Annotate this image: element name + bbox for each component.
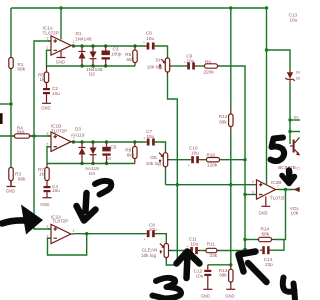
resistor R7 bbox=[38, 164, 49, 181]
junction V+ rail at IC1A bbox=[59, 6, 62, 9]
svg-text:CLEAN: CLEAN bbox=[142, 247, 158, 252]
svg-text:GND: GND bbox=[40, 202, 49, 207]
svg-text:10u: 10u bbox=[52, 188, 60, 193]
annotation digit 5 bbox=[271, 138, 285, 162]
svg-text:68k: 68k bbox=[219, 120, 227, 125]
capacitor C9 bbox=[184, 53, 197, 69]
svg-text:2: 2 bbox=[47, 46, 49, 50]
junction C5 bottom bbox=[105, 162, 108, 165]
junction zener line y120 bbox=[288, 118, 291, 121]
svg-text:3: 3 bbox=[47, 37, 49, 41]
resistor R4 bbox=[12, 126, 33, 139]
svg-text:2: 2 bbox=[47, 235, 49, 239]
resistor R12 bbox=[219, 110, 233, 131]
annotation arrow 1 (left) bbox=[2, 205, 43, 235]
annotation hook arrow near BC547B bbox=[282, 171, 295, 184]
svg-text:68k: 68k bbox=[18, 176, 26, 181]
svg-text:68k: 68k bbox=[18, 67, 26, 72]
junction summing node at R11/C14 bbox=[243, 248, 248, 253]
wire stub right at y131 bbox=[290, 131, 300, 133]
svg-text:GND: GND bbox=[259, 211, 268, 216]
svg-text:+: + bbox=[143, 137, 145, 141]
svg-text:1N: 1N bbox=[296, 71, 301, 75]
junction D3 bottom bbox=[80, 162, 83, 165]
capacitor C4 bbox=[44, 181, 61, 198]
transistor Q1 BC547B bbox=[278, 138, 301, 171]
svg-text:6k8: 6k8 bbox=[17, 129, 25, 134]
wire R4 input row bbox=[0, 135, 50, 137]
wire IC2B V+ vertical bbox=[266, 8, 268, 184]
diode D2 bbox=[86, 46, 103, 77]
svg-text:+: + bbox=[188, 164, 190, 168]
svg-text:BS: BS bbox=[294, 116, 299, 120]
op-amp IC2B bbox=[252, 180, 286, 201]
annotation up-arrow bottom middle bbox=[177, 252, 200, 279]
svg-text:TL072P: TL072P bbox=[270, 195, 286, 200]
wire IC1A V+ power bbox=[60, 8, 62, 40]
wire channel2 output top rail bbox=[74, 141, 146, 143]
svg-text:10k log: 10k log bbox=[141, 253, 157, 258]
svg-text:10u: 10u bbox=[196, 273, 204, 278]
ground below C2 bbox=[41, 103, 51, 110]
capacitor C11 bbox=[187, 237, 200, 254]
capacitor C8 bbox=[144, 222, 158, 242]
wire R10 to summing vertical bbox=[221, 159, 245, 161]
wire IC1A feedback loop and channel1 bottom rail bbox=[47, 50, 136, 66]
wire R14 feedback row bbox=[245, 239, 257, 241]
svg-text:68k: 68k bbox=[127, 57, 135, 62]
svg-text:5: 5 bbox=[252, 180, 254, 184]
svg-text:7: 7 bbox=[277, 184, 279, 188]
wire top supply rail bbox=[11, 7, 267, 9]
junction summing at R14 bbox=[243, 238, 246, 241]
capacitor C2 bbox=[43, 83, 60, 104]
svg-text:6k8: 6k8 bbox=[127, 152, 135, 157]
diode D3 bbox=[71, 126, 86, 163]
capacitor C12 bbox=[194, 265, 212, 290]
svg-text:GND: GND bbox=[201, 294, 210, 299]
annotation digit 4 bbox=[283, 278, 295, 300]
ground IC2B V- pin bbox=[259, 197, 271, 216]
svg-text:1N4148: 1N4148 bbox=[75, 36, 92, 41]
wire C6 to pot SI top bbox=[156, 46, 168, 59]
wire GE pot bottom down bbox=[165, 168, 167, 184]
junction C3 top bbox=[104, 44, 107, 47]
resistor R14 bbox=[257, 227, 275, 242]
ground below C12 bbox=[201, 289, 213, 298]
wire tee to zener branch bbox=[267, 50, 291, 70]
junction C5 top bbox=[105, 140, 108, 143]
wire bias divider vertical upper (R12 top) bbox=[230, 8, 232, 110]
junction D1 bottom bbox=[80, 64, 83, 67]
svg-text:10u: 10u bbox=[146, 36, 154, 41]
junction D4 bottom bbox=[91, 162, 94, 165]
ground below R3 bbox=[6, 181, 16, 194]
svg-text:C5: C5 bbox=[110, 144, 116, 149]
resistor R5 bbox=[38, 66, 49, 83]
svg-text:D4: D4 bbox=[89, 171, 95, 176]
junction C3 bottom bbox=[104, 64, 107, 67]
wire IC2B output to right edge bbox=[278, 189, 300, 191]
capacitor C13 label (body off-screen) bbox=[289, 12, 298, 22]
capacitor C14 bbox=[260, 246, 273, 267]
resistor R6 bbox=[125, 46, 137, 66]
svg-text:C6: C6 bbox=[146, 31, 152, 36]
wire summing to IC2B inverting input bbox=[245, 194, 257, 196]
svg-text:10u: 10u bbox=[187, 58, 195, 63]
diode D4 bbox=[85, 142, 99, 176]
svg-text:68k: 68k bbox=[262, 231, 270, 236]
ground below R13 bbox=[225, 289, 235, 298]
svg-text:D6: D6 bbox=[296, 77, 300, 81]
junction V+ tee at IC2B column bbox=[265, 48, 268, 51]
wire SI wiper row to C9 bbox=[171, 65, 186, 67]
wire bias divider vertical lower bbox=[230, 131, 232, 265]
wire R9 to summing vertical down to C14 row bbox=[220, 66, 246, 250]
ground IC1A V- pin bbox=[56, 51, 66, 65]
annotation digit 3 bbox=[153, 278, 182, 299]
svg-text:10u: 10u bbox=[191, 150, 199, 155]
svg-text:10k log: 10k log bbox=[146, 161, 162, 166]
svg-text:10u: 10u bbox=[190, 242, 198, 247]
potentiometer CLEAN bbox=[141, 242, 171, 260]
resistor R3 bbox=[9, 168, 26, 182]
junction bias C12 tap bbox=[229, 263, 232, 266]
svg-text:GND: GND bbox=[56, 59, 65, 64]
wire IC2A output row to C8 bbox=[74, 233, 146, 235]
junction IC2A output feedback tap bbox=[85, 232, 88, 235]
wire channel1 output top rail bbox=[74, 45, 146, 47]
svg-text:6: 6 bbox=[47, 142, 49, 146]
annotation down-arrow near IC2A bbox=[77, 193, 96, 221]
potentiometer SI bbox=[147, 57, 172, 75]
zener diode D right column bbox=[285, 70, 300, 84]
resistor R13 bbox=[219, 265, 233, 289]
svg-text:GND: GND bbox=[41, 106, 50, 111]
svg-text:+: + bbox=[187, 245, 189, 249]
diode D1 bbox=[75, 31, 92, 66]
junction V+ rail at IC2B branch bbox=[265, 6, 268, 9]
volume pot wiper arrow at edge bbox=[290, 187, 300, 216]
wire stub right at y120 bbox=[290, 119, 300, 121]
svg-text:1k: 1k bbox=[39, 171, 45, 176]
op-amp IC2A bbox=[47, 214, 75, 243]
svg-text:+: + bbox=[143, 41, 145, 45]
svg-text:220k: 220k bbox=[204, 70, 215, 75]
svg-text:68k: 68k bbox=[219, 272, 227, 277]
op-amp IC1A bbox=[43, 25, 75, 55]
capacitor C3 bbox=[102, 46, 122, 66]
wire zener to transistor base column bbox=[289, 84, 291, 144]
capacitor C6 bbox=[143, 31, 156, 50]
wire C11 to R11 bbox=[199, 250, 205, 252]
svg-text:SI: SI bbox=[156, 57, 160, 62]
resistor R10 bbox=[205, 153, 222, 168]
svg-text:10u: 10u bbox=[290, 17, 298, 22]
wire IC1B feedback loop and channel2 bottom rail bbox=[47, 147, 135, 164]
svg-text:GE: GE bbox=[150, 155, 157, 160]
resistor R1 bbox=[9, 58, 26, 72]
junction input bias node bbox=[9, 102, 12, 105]
junction node A at R4 output bbox=[32, 134, 35, 137]
junction D1 top bbox=[80, 44, 83, 47]
junction bias rail at divider bbox=[229, 183, 232, 186]
svg-text:10u: 10u bbox=[146, 134, 154, 139]
wire input bus to noninverting inputs (node A) bbox=[34, 41, 50, 229]
svg-text:D1: D1 bbox=[76, 31, 82, 36]
potentiometer GE bbox=[146, 151, 170, 169]
capacitor C10 bbox=[188, 146, 201, 168]
input pad fragment at left edge bbox=[0, 113, 3, 124]
wire R14 to output vertical bbox=[275, 190, 286, 240]
svg-text:+: + bbox=[184, 61, 186, 65]
svg-text:C1: C1 bbox=[297, 167, 301, 171]
junction IC1B output bbox=[72, 140, 75, 143]
junction summing at inverting input bbox=[243, 193, 246, 196]
wire C9 to R9 bbox=[196, 65, 203, 67]
svg-text:R12: R12 bbox=[219, 114, 228, 119]
ground below C4 bbox=[40, 198, 51, 207]
junction bias rail at SI/CLEAN vertical bbox=[176, 183, 179, 186]
svg-text:GND: GND bbox=[6, 189, 15, 194]
svg-text:6: 6 bbox=[252, 190, 254, 194]
svg-text:TL072P: TL072P bbox=[51, 128, 67, 133]
wire C12 tap bbox=[208, 264, 231, 266]
wire C10 to R10 bbox=[201, 159, 206, 161]
svg-text:5: 5 bbox=[47, 132, 49, 136]
svg-text:1k: 1k bbox=[40, 77, 46, 82]
wire pot SI bottom to bias rail and CLEAN pot bottom bbox=[166, 75, 177, 266]
resistor R11 bbox=[204, 242, 219, 259]
capacitor C5 bbox=[102, 142, 116, 164]
wire GE wiper row to C10 bbox=[170, 159, 190, 161]
svg-text:R9: R9 bbox=[205, 59, 211, 64]
resistor R9 bbox=[203, 59, 220, 74]
svg-text:10u: 10u bbox=[52, 91, 60, 96]
junction D2 top bbox=[91, 44, 94, 47]
svg-text:R10: R10 bbox=[207, 153, 216, 158]
junction D4 top bbox=[91, 140, 94, 143]
wire CLEAN wiper row to C11 bbox=[170, 250, 188, 252]
junction summing at R10 bbox=[243, 158, 246, 161]
svg-text:TL072P: TL072P bbox=[52, 218, 68, 223]
svg-text:TL072P: TL072P bbox=[43, 31, 59, 36]
resistor R8 bbox=[125, 142, 137, 164]
junction D2 bottom bbox=[91, 64, 94, 67]
annotation arrow 4 (pointing up-left) bbox=[239, 252, 267, 283]
svg-text:100p: 100p bbox=[111, 52, 122, 57]
svg-text:22p: 22p bbox=[265, 262, 273, 267]
annotation hook stroke near IC2A bbox=[95, 181, 111, 195]
junction D3 top bbox=[80, 140, 83, 143]
svg-text:D2: D2 bbox=[89, 72, 95, 77]
wire left input stub at node bias bbox=[0, 103, 11, 105]
svg-text:10u: 10u bbox=[149, 227, 157, 232]
wire bias rail to IC2B noninverting input bbox=[166, 184, 257, 186]
svg-text:GND: GND bbox=[225, 294, 234, 299]
junction R6 top bbox=[133, 44, 136, 47]
svg-text:5n: 5n bbox=[106, 156, 112, 161]
capacitor C7 bbox=[143, 129, 156, 146]
svg-text:3: 3 bbox=[47, 224, 49, 228]
op-amp IC1B bbox=[47, 124, 75, 152]
wire C7 to pot GE top bbox=[156, 142, 166, 151]
svg-text:AA119: AA119 bbox=[71, 132, 85, 137]
svg-text:+: + bbox=[144, 238, 146, 242]
wire C8 to pot CLEAN top bbox=[156, 234, 166, 242]
svg-text:10k: 10k bbox=[291, 210, 299, 215]
svg-text:10k log: 10k log bbox=[147, 65, 163, 70]
junction IC2B output feedback bbox=[284, 188, 287, 191]
junction R8 top bbox=[133, 140, 136, 143]
svg-text:33k: 33k bbox=[210, 253, 218, 258]
wire left vertical R1/R3 column bbox=[10, 8, 12, 186]
svg-text:120k: 120k bbox=[207, 163, 218, 168]
junction IC1A output bbox=[72, 44, 75, 47]
svg-text:1: 1 bbox=[72, 229, 74, 233]
junction zener line y131 bbox=[288, 130, 291, 133]
svg-text:D3: D3 bbox=[75, 126, 81, 131]
junction V+ rail at R12 bbox=[229, 6, 232, 9]
wire C14 right to feedback vertical bbox=[272, 240, 285, 250]
wire R11 to summing node bbox=[219, 250, 246, 252]
svg-text:IC1A: IC1A bbox=[43, 25, 54, 30]
wire IC2A feedback loop bbox=[48, 234, 87, 255]
svg-text:R11: R11 bbox=[207, 242, 216, 247]
